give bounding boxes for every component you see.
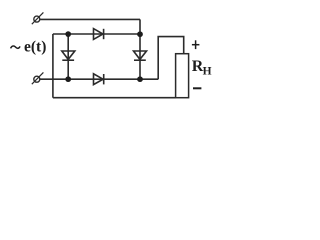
wire: lower rail from terminal T2 across left vertical to right corner — [40, 78, 158, 80]
resistor RH (load, rectangle body) — [176, 54, 189, 98]
wire: left vertical from top rail corner down to bottom return — [52, 34, 54, 98]
wire: top lead from terminal T1 to corner above node N2 — [40, 18, 140, 20]
label ~ e(t) (source voltage) — [11, 38, 47, 55]
wire: vertical branch of diode D1 from top rail to lower rail — [67, 34, 69, 79]
wire: top rail from left corner to node N2 — [53, 33, 140, 35]
diode D2 (top rail, pointing right) — [94, 29, 104, 40]
diode D3 (vertical, pointing down) — [134, 51, 147, 60]
terminal T1 (upper AC input, circle with slash) — [32, 12, 44, 24]
polarity minus sign — [193, 87, 201, 89]
svg-text:H: H — [203, 66, 212, 78]
diode D1 (vertical, pointing down) — [62, 51, 75, 60]
label RH (load resistor designator) — [192, 58, 212, 77]
terminal T2 (lower AC input, circle with slash) — [32, 72, 44, 84]
node N3 (junction dot, lower rail / diode D1 cathode) — [65, 76, 71, 82]
wire: bottom return from left vertical to resistor bottom — [53, 97, 176, 99]
wire: vertical from top wire through node N2 and diode D3 to lower rail — [139, 19, 141, 79]
polarity plus sign — [192, 40, 200, 49]
node N2 (junction dot, AC terminal T1 / diode D3 anode) — [137, 31, 143, 37]
node N1 (junction dot, top rail / diode D1 anode) — [65, 31, 71, 37]
diode D4 (lower rail, pointing right) — [94, 74, 104, 85]
svg-text:e(t): e(t) — [24, 38, 46, 55]
node N4 (junction dot, lower rail / diode D3 cathode) — [137, 76, 143, 82]
wire: from lower rail corner up and over to resistor top (+) lead — [158, 37, 184, 80]
